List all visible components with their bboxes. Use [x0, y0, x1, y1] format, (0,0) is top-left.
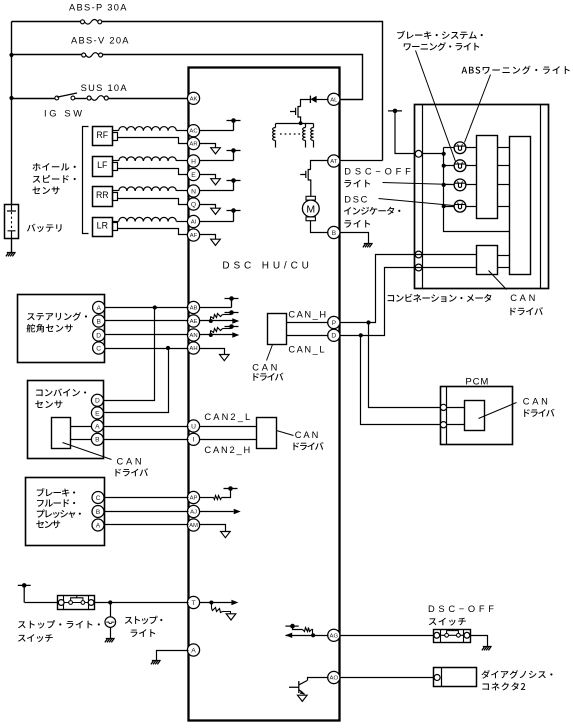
svg-text:RR: RR: [96, 190, 109, 200]
pin AP: [187, 491, 199, 503]
battery: [5, 205, 19, 239]
wire AJ internal: [200, 511, 234, 513]
wire meter lamp bus: [444, 148, 510, 232]
ground stop light: [105, 639, 115, 643]
label battery: [27, 224, 62, 232]
wheel speed sensor LF: [93, 157, 113, 177]
wire driver to panel y147.8: [498, 147, 510, 149]
resistor T divider: [211, 603, 213, 609]
svg-text:CAN: CAN: [523, 397, 548, 407]
wire PCM CAN_L: [447, 424, 465, 426]
svg-text:CAN: CAN: [117, 457, 142, 467]
wire battery to ground: [11, 239, 13, 253]
wire motor to pin B: [311, 221, 329, 233]
pin brake C: [92, 492, 104, 504]
lamp DSC indicator: [454, 200, 466, 212]
wire U4 to panel upper: [498, 255, 510, 257]
label steering sensor line1: [27, 312, 87, 321]
junction steering A branch: [153, 305, 157, 309]
ground pin B: [363, 244, 373, 248]
pin U: [187, 420, 199, 432]
pin AJ: [187, 505, 199, 517]
wire ABS-V feed: [12, 54, 82, 56]
fuse ABS-P 30A: [81, 20, 85, 24]
pin AO: [328, 671, 340, 683]
svg-text:T: T: [191, 600, 195, 607]
wire P to meter CAN_H: [340, 255, 415, 323]
label stop light switch line1: [18, 620, 100, 628]
motor M1 ABS pump: [306, 196, 315, 200]
svg-text:DSC−OFF: DSC−OFF: [428, 604, 494, 614]
wire AH internal: [200, 349, 225, 355]
svg-text:AO: AO: [330, 676, 339, 682]
CAN driver U4 (meter): [477, 246, 498, 275]
svg-text:AP: AP: [190, 496, 198, 502]
ground pin A: [151, 661, 161, 665]
pin AH: [187, 342, 199, 354]
wire AF internal: [200, 235, 216, 240]
pin combine E: [91, 407, 103, 419]
svg-text:AC: AC: [189, 129, 198, 135]
ground arrow AF: [211, 239, 221, 245]
pin E: [187, 168, 199, 180]
wire branch A to combine D: [104, 308, 155, 401]
label combination meter: [388, 294, 492, 302]
wire D branch to PCM: [361, 336, 441, 425]
wire stop light to ground: [110, 628, 112, 639]
wire driver to panel y165.7: [498, 165, 510, 167]
svg-text:CAN: CAN: [510, 293, 535, 303]
junction D branch: [359, 333, 363, 337]
wire AO to diag connector: [340, 677, 434, 679]
wire ABS-P feed: [12, 21, 81, 23]
fuse SUS 10A: [87, 96, 91, 100]
pin steering D: [93, 329, 105, 341]
svg-text:P: P: [332, 320, 337, 327]
meter connector strip left: [422, 105, 424, 289]
svg-text:ABS-V 20A: ABS-V 20A: [71, 36, 129, 46]
label brake fluid line3: [37, 509, 81, 518]
label CAN driver U2 line2: [293, 442, 323, 450]
wire D to meter CAN_L: [340, 268, 415, 336]
svg-text:A: A: [96, 522, 101, 529]
connector meter feed: [415, 150, 422, 157]
svg-text:AE: AE: [190, 319, 198, 325]
inductor coil RR: [113, 190, 119, 192]
wire brake C to AP: [105, 497, 189, 499]
svg-text:SUS 10A: SUS 10A: [81, 83, 128, 93]
label CAN driver U5 line2: [524, 409, 554, 417]
label brake system warning line2: [404, 42, 480, 51]
pin steering A: [93, 301, 105, 313]
transistor Q3 diag NPN: [289, 681, 307, 695]
wire AP internal: [200, 497, 214, 499]
pin AF: [187, 229, 199, 241]
svg-text:LR: LR: [97, 221, 108, 231]
pointer brake system warning: [416, 51, 456, 162]
label DSC indicator line3: [344, 220, 370, 228]
wire LF return: [118, 169, 189, 175]
svg-text:AH: AH: [189, 346, 197, 352]
label stop light line2: [131, 629, 156, 637]
diagnosis connector 2 box: [434, 668, 477, 687]
wire lamp4 tap: [444, 206, 454, 208]
pointer CAN driver U4: [489, 271, 507, 290]
solenoid coil L1: [275, 124, 277, 128]
transistor Q2 pump-motor FET: [308, 169, 311, 196]
junction meter lamp bus: [442, 152, 446, 156]
wire D internal: [287, 335, 329, 337]
wire ABS-P to AT: [340, 160, 383, 162]
label wheel speed sensor line3: [32, 187, 59, 195]
CAN driver U2: [257, 418, 277, 449]
svg-text:N: N: [191, 188, 196, 195]
lamp stop light: [105, 617, 116, 628]
wire Q internal: [200, 205, 216, 209]
junction Q1 source node: [299, 121, 303, 125]
wire DSC-OFF switch to ground: [471, 636, 488, 647]
power feed stop light switch: [18, 585, 31, 602]
wire stop light switch to T: [95, 602, 189, 604]
svg-text:A: A: [96, 305, 101, 312]
CAN driver U1: [268, 314, 287, 345]
pin AE: [187, 315, 199, 327]
ECU main box DSC HU/CU: [189, 68, 340, 721]
meter panel block: [510, 137, 531, 275]
meter connector strip right: [540, 105, 542, 289]
power feed AN: [225, 327, 239, 329]
wire A to ground: [157, 651, 189, 661]
wire feed to stop light switch: [25, 602, 58, 604]
svg-text:M: M: [306, 203, 315, 215]
signal arrow T: [231, 600, 238, 605]
meter lamp driver block: [477, 136, 498, 219]
pin B: [328, 226, 340, 238]
power feed AG: [285, 625, 298, 627]
PCM connector strip: [446, 387, 448, 445]
wire steering D to AN: [105, 334, 189, 336]
combine sensor box: [28, 381, 104, 459]
label brake system warning line1: [397, 31, 483, 39]
wire diode to FET Q1 drain: [301, 100, 311, 107]
wire U3 to pin B: [71, 439, 92, 441]
wire SUS feed: [12, 98, 55, 100]
ground arrow AM: [221, 532, 231, 538]
power feed AB: [225, 299, 239, 308]
ground arrow AH: [220, 355, 230, 361]
wire lamp1 tap: [444, 147, 454, 149]
wire tap to stop light: [110, 603, 112, 617]
combination meter box: [415, 105, 549, 289]
resistor AG pull-up: [293, 627, 303, 630]
wire solenoid bus: [276, 123, 314, 125]
svg-text:E: E: [191, 172, 196, 179]
wire H internal: [200, 160, 234, 162]
label wheel speed sensor line2: [33, 175, 76, 183]
svg-text:B: B: [96, 509, 101, 516]
wire AR internal: [200, 144, 216, 148]
wire lamp3 tap: [444, 184, 454, 186]
svg-text:CAN_H: CAN_H: [288, 309, 326, 319]
connector PCM CAN_L: [440, 422, 446, 428]
junction lamp3 tap: [442, 183, 446, 187]
signal arrow AG: [285, 633, 292, 638]
wheel speed sensor RR: [93, 187, 113, 207]
wheel speed sensor LR: [93, 218, 113, 237]
wire B to ground: [340, 233, 369, 244]
svg-text:AL: AL: [330, 97, 338, 103]
lamp DSC-OFF: [454, 179, 466, 191]
wire branch C to combine E: [104, 349, 169, 413]
signal arrow AN: [232, 332, 239, 337]
wire lamp out y147.8: [467, 147, 477, 149]
pin combine B: [91, 433, 103, 445]
pointer CAN driver U3: [63, 443, 112, 460]
wire P branch to PCM: [369, 323, 441, 408]
pin AN: [187, 329, 199, 341]
junction AN pull-up: [209, 333, 213, 337]
pin combine A: [91, 420, 103, 432]
wire meter lamp feed: [395, 153, 444, 155]
signal arrow AE: [232, 318, 239, 323]
svg-text:B: B: [96, 318, 101, 325]
junction steering C branch: [166, 346, 170, 350]
label combine sensor line2: [35, 400, 62, 408]
pin AL: [328, 93, 340, 105]
wire AC internal: [200, 130, 234, 132]
power feed AE: [225, 313, 239, 315]
power feed AP: [224, 488, 238, 490]
wire AG internal: [286, 635, 329, 637]
svg-text:U: U: [191, 423, 196, 430]
label DSC indicator line2: [344, 207, 401, 215]
inductor coil LR: [113, 221, 119, 223]
steering angle sensor box: [18, 295, 105, 363]
junction T divider: [209, 601, 213, 605]
wheel speed sensor RF: [93, 127, 113, 146]
pointer DSC indicator: [379, 199, 454, 206]
svg-text:A: A: [191, 647, 196, 654]
wire steering B to AE: [105, 320, 189, 322]
connector PCM CAN_H: [440, 404, 446, 410]
pointer CAN driver U5: [479, 403, 517, 419]
pin AK: [187, 92, 199, 104]
wire brake B to AJ: [105, 511, 189, 513]
pin steering B: [93, 315, 105, 327]
pin AM: [187, 519, 199, 531]
label CAN driver U4 line2: [510, 307, 543, 315]
junction lamp4 tap: [442, 204, 446, 208]
svg-text:H: H: [191, 158, 196, 165]
wire combine B to I: [104, 439, 189, 441]
pin P: [328, 316, 340, 328]
wire LR return: [118, 229, 189, 235]
connector meter CAN2: [415, 264, 422, 271]
svg-text:LF: LF: [97, 160, 108, 170]
svg-text:AF: AF: [190, 233, 198, 239]
svg-text:D: D: [95, 398, 100, 405]
pin AG: [328, 629, 340, 641]
wire AG to DSC-OFF switch: [340, 635, 434, 637]
svg-text:CAN_L: CAN_L: [288, 345, 324, 355]
pin brake B: [92, 506, 104, 518]
pin N: [187, 185, 199, 197]
wire T internal: [200, 602, 232, 604]
pin brake A: [92, 519, 104, 531]
pointer CAN driver U2: [277, 431, 294, 436]
relay linkage dotted line: [280, 133, 302, 135]
junction AE pull-up: [209, 319, 213, 323]
label CAN driver U1 line2: [253, 373, 283, 381]
wire driver to panel y206.2: [498, 206, 510, 208]
label stop light switch line2: [18, 634, 53, 642]
power feed H: [227, 151, 241, 161]
svg-text:AJ: AJ: [190, 510, 197, 516]
power feed N: [227, 181, 241, 191]
pin combine D: [91, 394, 103, 406]
ground arrow E: [211, 179, 221, 185]
wire combine A to U: [104, 426, 189, 428]
svg-text:A: A: [95, 423, 100, 430]
wire RR return: [118, 199, 189, 205]
solenoid coil L2: [305, 124, 307, 128]
svg-text:B: B: [95, 437, 100, 444]
pointer CAN driver U1: [267, 345, 273, 361]
switch stop light: [58, 596, 95, 610]
connector diag pin: [434, 675, 440, 681]
wire steering A to AB: [105, 307, 189, 309]
connector meter CAN1: [415, 251, 422, 258]
wire AB internal: [200, 307, 232, 309]
svg-text:AG: AG: [330, 633, 339, 639]
svg-text:C: C: [96, 495, 101, 502]
wire lamp out y184.9: [467, 184, 477, 186]
svg-text:E: E: [95, 410, 100, 417]
svg-text:RF: RF: [96, 130, 108, 140]
label DSC-OFF light line2: [344, 180, 370, 188]
pin AI: [187, 215, 199, 227]
wire AL to diode: [317, 99, 329, 101]
label DSC-OFF switch line2: [429, 618, 466, 626]
ground arrow Q3 emitter: [298, 695, 308, 701]
ground battery: [6, 253, 16, 257]
power feed AI: [227, 211, 241, 222]
pin AC: [187, 125, 199, 137]
label CAN driver U3 line2: [115, 468, 148, 476]
wire RF return: [118, 138, 189, 144]
ground arrow Q: [211, 208, 221, 214]
svg-text:AT: AT: [330, 159, 337, 165]
svg-text:AM: AM: [189, 523, 198, 529]
svg-text:B: B: [332, 230, 337, 237]
label stop light line1: [125, 616, 163, 624]
wire AO internal: [308, 678, 329, 681]
wire driver to panel y184.9: [498, 184, 510, 186]
svg-text:C: C: [96, 345, 101, 352]
PCM box: [441, 387, 513, 445]
fuse ABS-V 20A: [82, 53, 86, 57]
wire N internal: [200, 190, 234, 192]
bracket wheel sensors: [83, 127, 89, 234]
svg-text:D: D: [331, 333, 336, 340]
wire AN internal: [200, 334, 233, 336]
wire lamp out y165.7: [467, 165, 477, 167]
ground arrow T divider: [226, 614, 236, 620]
label diagnosis connector line2: [482, 682, 525, 690]
wire I internal: [200, 439, 257, 441]
wire E internal: [200, 175, 216, 179]
svg-text:DSC HU/CU: DSC HU/CU: [222, 261, 309, 272]
CAN driver U5 (PCM): [465, 401, 485, 431]
wire AE internal: [200, 320, 233, 322]
wire AM internal: [200, 525, 226, 532]
pin D: [328, 329, 340, 341]
transistor Q1 solenoid-driver FET: [298, 106, 301, 123]
ground DSC-OFF switch: [482, 647, 492, 651]
power feed meter lamps: [388, 111, 402, 154]
wire lamp out y206.2: [467, 206, 477, 208]
wire AT to FET Q2: [311, 161, 329, 170]
svg-text:AK: AK: [190, 96, 198, 102]
wire U internal: [200, 426, 257, 428]
junction AG pull-up: [311, 633, 315, 637]
pin AB: [187, 301, 199, 313]
resistor AN pull-up: [210, 331, 212, 335]
svg-text:Q: Q: [191, 201, 196, 208]
inductor coil RF: [113, 130, 119, 132]
diag connector strip: [441, 668, 443, 687]
svg-text:CAN: CAN: [295, 430, 319, 440]
pin I: [187, 433, 199, 445]
pin H: [187, 155, 199, 167]
pointer DSC-OFF light: [383, 183, 454, 185]
wire steering C to AH: [105, 348, 189, 350]
svg-text:AN: AN: [189, 333, 197, 339]
pin AR: [187, 137, 199, 149]
signal arrow AJ: [234, 509, 241, 514]
label brake fluid line4: [36, 520, 60, 528]
svg-text:AI: AI: [191, 220, 197, 226]
svg-text:DSC−OFF: DSC−OFF: [344, 166, 411, 176]
junction P branch: [366, 320, 370, 324]
pin A: [187, 644, 199, 656]
junction stop light tap: [108, 600, 112, 604]
inductor coil LF: [113, 160, 119, 162]
wire U3 to pin A: [71, 426, 92, 428]
switch DSC-OFF: [434, 630, 471, 643]
wire U4 to panel lower: [498, 267, 510, 269]
junction bus/ABS-V: [9, 53, 13, 57]
resistor AE pull-up: [210, 317, 212, 321]
wire meter CAN_H in: [415, 254, 477, 256]
label wheel speed sensor line1: [33, 163, 76, 171]
ground arrow AR: [211, 148, 221, 154]
junction lamp2 tap: [442, 164, 446, 168]
label ABS warning light: [462, 66, 570, 75]
svg-text:DSC: DSC: [344, 195, 367, 205]
label brake fluid line2: [37, 499, 75, 507]
power feed AC: [227, 121, 241, 131]
wire AI internal: [200, 221, 234, 223]
junction bus/SUS: [9, 96, 13, 100]
pin steering C: [93, 342, 105, 354]
wire lamp2 tap: [444, 165, 454, 167]
wire meter CAN_L in: [415, 267, 477, 269]
pin Q: [187, 198, 199, 210]
lamp brake system warning: [454, 142, 466, 154]
pin AT: [328, 155, 340, 167]
svg-text:D: D: [96, 332, 101, 339]
